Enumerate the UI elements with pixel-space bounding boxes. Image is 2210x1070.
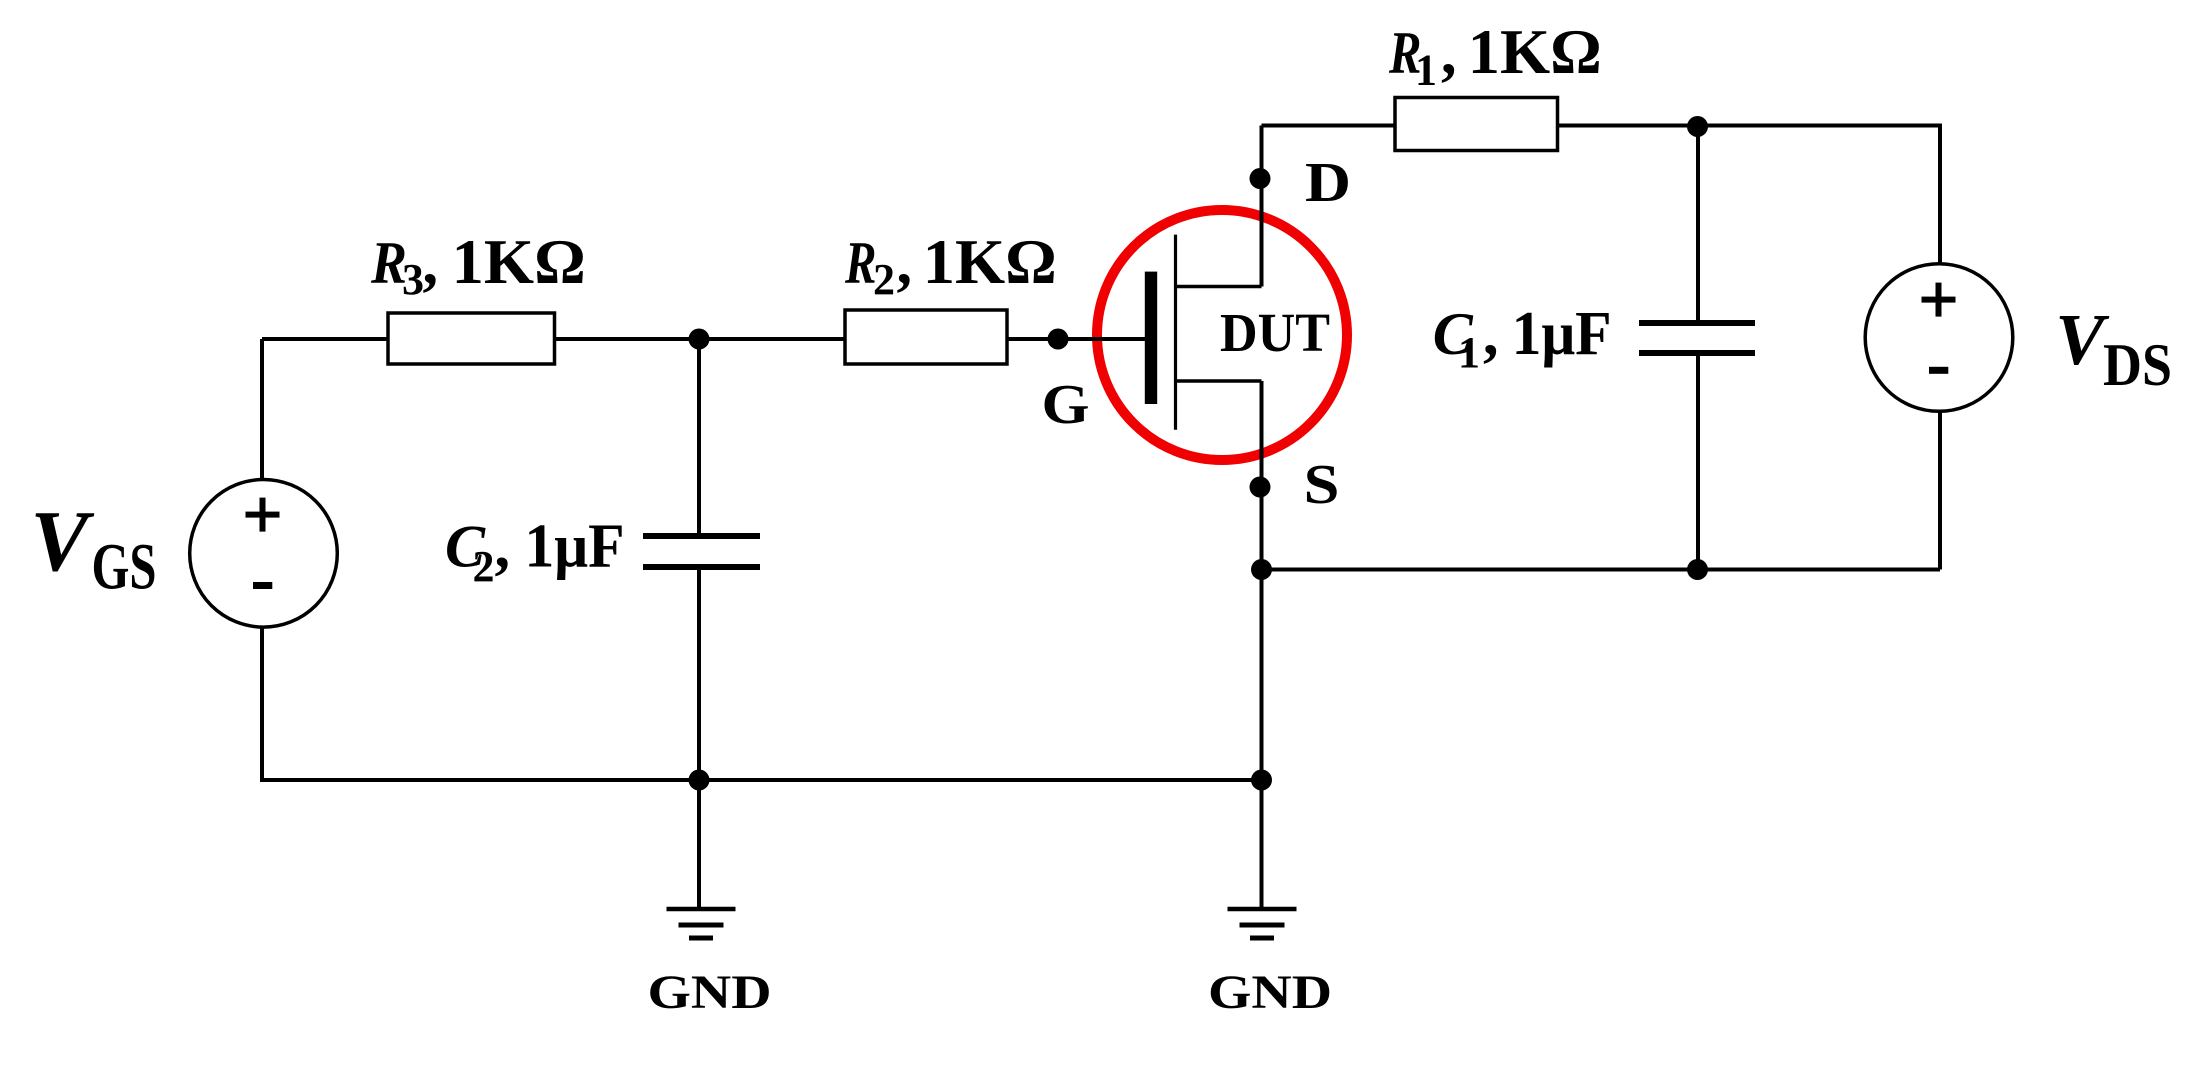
svg-text:GND: GND [648,966,772,1019]
svg-text:G: G [1042,374,1090,436]
svg-text:R 1 , 1KΩ: R 1 , 1KΩ [1388,16,1602,99]
svg-text:GND: GND [1208,966,1332,1019]
svg-text:R 3 , 1KΩ: R 3 , 1KΩ [370,226,586,308]
svg-text:D: D [1305,152,1351,214]
svg-text:R 2 , 1KΩ: R 2 , 1KΩ [844,226,1057,308]
svg-text:S: S [1304,454,1340,516]
svg-text:DUT: DUT [1220,302,1330,363]
